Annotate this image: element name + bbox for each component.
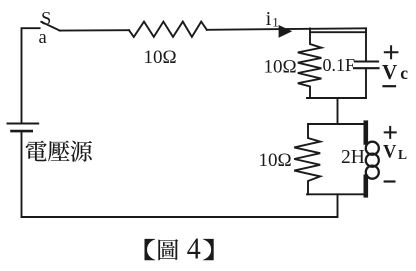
caption right lenticular bracket	[203, 239, 214, 260]
svg-text:10Ω: 10Ω	[143, 47, 176, 68]
capacitor C1 0.1F top lead	[365, 32, 367, 61]
resistor R3 10ohm (vertical, in RL block)	[294, 124, 320, 194]
source label char dian (electric)	[26, 141, 47, 162]
svg-text:0.1F: 0.1F	[323, 55, 356, 75]
svg-text:10Ω: 10Ω	[258, 150, 291, 171]
caption left lenticular bracket	[145, 239, 156, 260]
wire: battery to bottom rail	[21, 131, 23, 217]
svg-text:V: V	[382, 60, 397, 84]
current arrow i1	[279, 25, 293, 38]
svg-text:L: L	[398, 147, 407, 162]
wire: RL block down to bottom rail	[22, 194, 338, 217]
plus sign for VL	[385, 127, 396, 138]
capacitor C1 bottom plate	[354, 67, 379, 69]
node bar: bottom of RC block	[307, 97, 366, 99]
capacitor C1 bottom lead	[365, 68, 367, 98]
capacitor C1 top plate	[355, 60, 378, 62]
resistor R2 10ohm (vertical, in RC block)	[298, 33, 322, 98]
node bar: top of RL parallel block	[308, 123, 366, 125]
svg-text:2H: 2H	[341, 147, 365, 168]
caption char tu (figure)	[158, 239, 178, 260]
node bar: top of RC parallel block	[310, 28, 366, 32]
svg-text:1: 1	[272, 15, 279, 30]
inductor L1 coil loops	[366, 142, 379, 155]
svg-text:4: 4	[187, 233, 201, 266]
svg-text:c: c	[400, 63, 408, 83]
wire: RC block to RL block	[337, 98, 339, 124]
inductor L1 bottom thick lead	[363, 177, 368, 196]
minus sign for VL	[385, 180, 395, 182]
switch S blade (open, contact a)	[41, 22, 60, 31]
battery E short plate (-)	[12, 130, 32, 133]
minus sign for Vc	[384, 85, 396, 87]
svg-text:a: a	[39, 28, 47, 48]
svg-text:S: S	[41, 10, 51, 30]
svg-text:i: i	[266, 8, 272, 30]
resistor R1 10ohm (top, zigzag)	[129, 22, 207, 37]
battery E long plate (+)	[8, 123, 39, 125]
inductor L1 2H top thick lead	[363, 123, 368, 143]
node bar: bottom of RL block	[307, 193, 366, 195]
svg-text:V: V	[383, 143, 397, 163]
source label char ya (pressure)	[48, 140, 70, 161]
wire: left vertical (top section, battery to switch corner)	[22, 28, 40, 123]
plus sign for Vc	[385, 46, 398, 58]
source label char yuan (source)	[70, 141, 92, 162]
wire: switch to resistor R1	[60, 29, 129, 31]
svg-text:10Ω: 10Ω	[263, 57, 296, 78]
wire: resistor R1 to node (with current arrow)	[207, 28, 366, 30]
